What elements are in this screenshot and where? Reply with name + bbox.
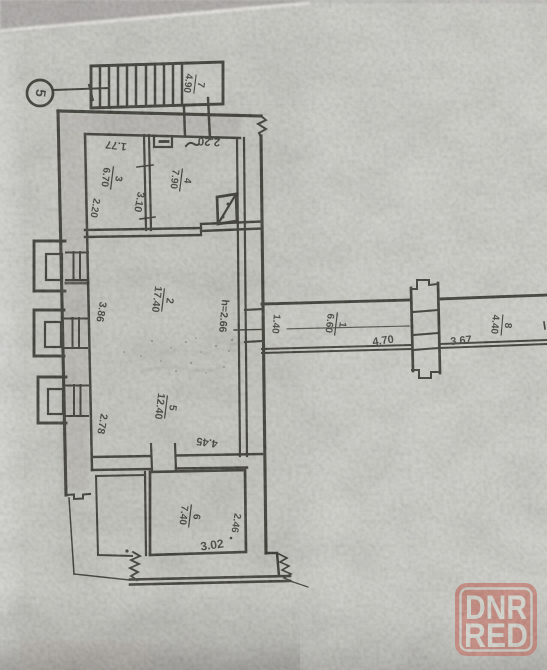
vent diagonal xyxy=(218,194,236,224)
squiggle tail xyxy=(293,582,308,587)
window W3 xyxy=(66,385,88,416)
porch squiggle at nook corner xyxy=(130,552,140,580)
dirt speckles in big room xyxy=(123,337,233,374)
room label 6/7.40 xyxy=(176,504,203,529)
small mark right of panel xyxy=(186,143,199,146)
room label 4/7.90 xyxy=(167,168,194,193)
stair to wall connector jambs xyxy=(184,107,185,136)
joint rungs xyxy=(413,310,439,350)
DNR RED watermark stamp xyxy=(455,583,537,656)
room5 floor wall upper line xyxy=(92,454,262,470)
terrace double line xyxy=(130,576,290,580)
axis tick xyxy=(89,85,93,100)
entry nook outline xyxy=(96,475,145,556)
rooms 3/4 bottom wall left part xyxy=(85,228,201,230)
vent dots xyxy=(227,203,230,206)
top-left dark surface above paper edge xyxy=(0,0,547,34)
window bay 1 inner xyxy=(46,254,62,280)
door jambs room5/6 xyxy=(151,444,152,470)
tick on partition xyxy=(137,165,153,167)
room label 8/4.40 xyxy=(488,314,514,336)
room 6 left wall double xyxy=(145,472,146,555)
room 6 walls xyxy=(150,470,246,555)
dot near squiggle xyxy=(125,549,128,552)
room label 1/6.60 xyxy=(322,312,349,337)
joint battlement top xyxy=(411,280,438,289)
right wall break squiggle xyxy=(258,116,266,137)
top wall outer xyxy=(58,111,261,116)
corridor dim line xyxy=(234,329,262,332)
top wall inner xyxy=(85,134,240,138)
corridor bottom double xyxy=(262,340,547,353)
room label 2/17.40 xyxy=(149,285,177,314)
right outer wall xyxy=(261,136,266,553)
small tick after 3.02 xyxy=(230,537,233,540)
window W1 xyxy=(66,252,88,280)
window W2 xyxy=(65,318,87,348)
staircase treads xyxy=(100,63,182,107)
left edge light xyxy=(0,0,26,670)
wall shading top xyxy=(60,114,240,135)
edge tick right xyxy=(544,322,545,329)
wall shading left xyxy=(61,135,88,490)
door shorts at corridor entry xyxy=(245,309,263,342)
window bay 1 outer xyxy=(34,241,65,291)
porch bottom line xyxy=(74,574,130,580)
room2/5 right wall double xyxy=(237,138,240,456)
rooms 3/4 bottom wall right jog xyxy=(201,222,261,225)
panel symbol in partition top xyxy=(154,136,172,147)
right side lighter band xyxy=(295,0,547,670)
corridor top line xyxy=(262,300,410,304)
window bay 2 outer xyxy=(34,310,64,356)
joint battlement bottom xyxy=(412,370,440,378)
axis arm from circle 5 xyxy=(54,88,108,90)
room label 3/6.70 xyxy=(98,166,125,191)
expansion joint left line xyxy=(411,288,413,371)
expansion joint right line xyxy=(438,283,440,373)
left wall inner xyxy=(85,134,92,470)
window bay 3 inner xyxy=(48,389,63,414)
left wall outer xyxy=(58,111,66,495)
right wall bottom step xyxy=(266,553,279,576)
tick on partition lower xyxy=(140,217,155,219)
porch left line xyxy=(69,498,74,574)
window bay 3 outer xyxy=(38,377,66,423)
eraser smudges in big room xyxy=(140,343,244,372)
left wall end notch xyxy=(66,494,90,499)
vent shaft square xyxy=(217,194,237,224)
right squiggle to terrace xyxy=(279,554,293,582)
partition rooms 3/4 xyxy=(144,135,146,230)
room label 5/12.40 xyxy=(152,392,180,421)
bottom shade xyxy=(0,600,547,670)
staircase 7 outer xyxy=(91,62,223,108)
stair label 7/4.90 xyxy=(181,73,207,96)
axis circle 5 xyxy=(27,80,53,106)
window bay 2 inner xyxy=(45,322,61,347)
